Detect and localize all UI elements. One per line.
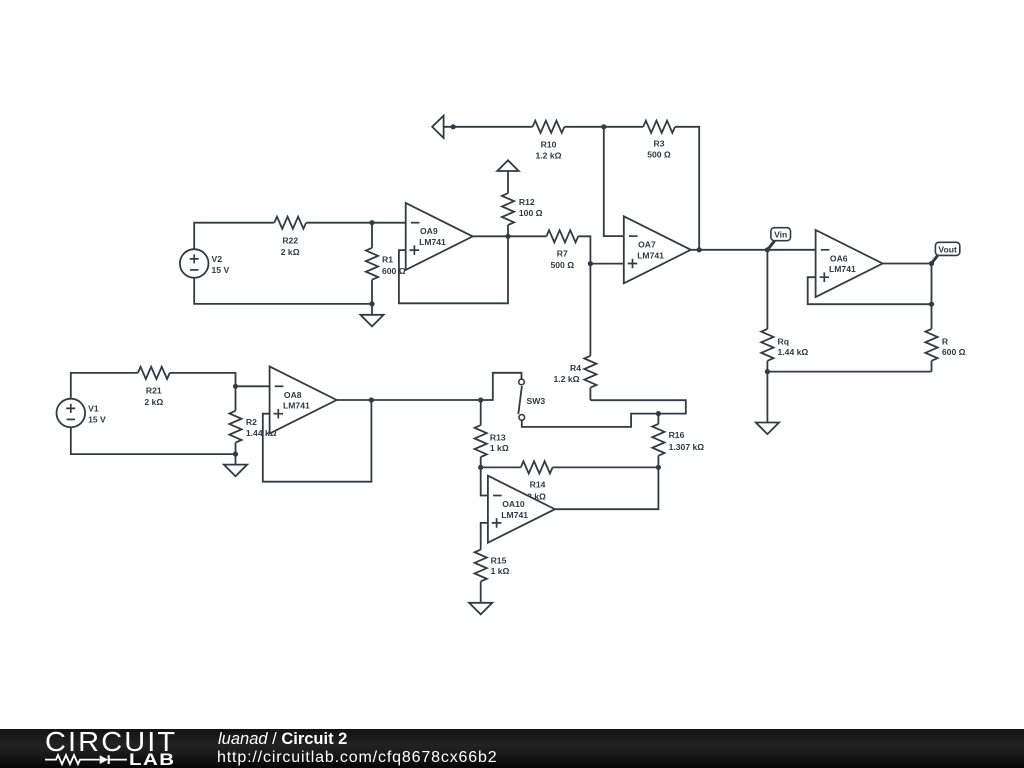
junction (601, 124, 606, 129)
resistor R13 (475, 400, 509, 467)
junction (505, 234, 510, 239)
svg-text:R13: R13 (490, 432, 506, 442)
svg-text:600 Ω: 600 Ω (382, 266, 406, 276)
svg-text:R10: R10 (541, 139, 557, 149)
wire (194, 278, 372, 304)
wire (675, 127, 699, 250)
svg-text:2 kΩ: 2 kΩ (144, 397, 163, 407)
wire (808, 277, 932, 304)
footer bar (0, 729, 1024, 768)
svg-text:1.2 kΩ: 1.2 kΩ (553, 374, 579, 384)
svg-text:R22: R22 (282, 235, 298, 245)
svg-text:Rq: Rq (778, 337, 789, 347)
resistor R22 (274, 217, 306, 257)
wire (766, 361, 768, 372)
resistor R3 (643, 121, 675, 160)
junction (451, 124, 456, 129)
junction (233, 452, 238, 457)
svg-text:R14: R14 (530, 480, 546, 490)
wire (170, 373, 270, 386)
voltage source V2 (180, 249, 230, 278)
op-amp OA8 (270, 367, 337, 434)
wire (71, 427, 236, 454)
svg-text:Vout: Vout (938, 244, 957, 254)
wire (507, 225, 509, 236)
ground (360, 304, 383, 327)
net flag Vin (769, 228, 791, 249)
wire (589, 264, 591, 356)
svg-text:R12: R12 (519, 197, 535, 207)
wire (481, 373, 522, 400)
resistor R7 (546, 230, 578, 270)
resistor R4 (553, 356, 596, 400)
resistor R1 (366, 223, 406, 304)
junction (369, 220, 374, 225)
wire (604, 127, 624, 236)
wire (337, 399, 481, 401)
wire (507, 171, 509, 193)
wire (766, 372, 768, 423)
wire (767, 371, 931, 373)
wire (473, 235, 547, 237)
svg-text:R: R (942, 337, 949, 347)
svg-text:15 V: 15 V (88, 415, 106, 425)
op-amp OA6 (816, 230, 883, 297)
svg-text:500 Ω: 500 Ω (550, 260, 574, 270)
junction (656, 465, 661, 470)
junction (929, 302, 934, 307)
svg-text:SW3: SW3 (527, 396, 546, 406)
wire (578, 236, 590, 263)
svg-text:1.307 kΩ: 1.307 kΩ (669, 442, 705, 452)
wire (564, 126, 643, 128)
op-amp OA10 (488, 476, 555, 543)
svg-text:R7: R7 (557, 249, 568, 259)
wire (931, 264, 933, 330)
junction (929, 261, 934, 266)
wire (553, 466, 659, 468)
svg-text:R4: R4 (570, 363, 581, 373)
net flag arrow B (497, 160, 518, 171)
voltage source V1 (57, 399, 107, 428)
junction (369, 397, 374, 402)
footer url (217, 749, 498, 766)
svg-text:2 kΩ: 2 kΩ (281, 247, 300, 257)
junction (765, 247, 770, 252)
resistor R14 (521, 461, 553, 501)
svg-text:V1: V1 (88, 403, 99, 413)
svg-text:1 kΩ: 1 kΩ (491, 566, 510, 576)
wire (691, 249, 816, 251)
svg-text:OA6: OA6 (830, 253, 848, 263)
wire (263, 400, 372, 482)
op-amp OA7 (624, 216, 691, 283)
logo LAB text (129, 753, 176, 767)
junction (369, 301, 374, 306)
svg-text:Vin: Vin (774, 230, 787, 240)
wire (481, 467, 488, 495)
junction (765, 369, 770, 374)
svg-text:R15: R15 (491, 555, 507, 565)
svg-text:15 V: 15 V (212, 265, 230, 275)
footer title (218, 731, 347, 748)
op-amp OA9 (406, 203, 473, 270)
junction (233, 384, 238, 389)
ground (756, 423, 779, 435)
resistor R12 (502, 193, 543, 225)
resistor R10 (533, 121, 565, 161)
logo doodle (0, 729, 200, 768)
svg-text:OA7: OA7 (638, 240, 656, 250)
svg-text:OA10: OA10 (502, 499, 525, 509)
svg-text:R3: R3 (654, 138, 665, 148)
svg-text:V2: V2 (212, 254, 223, 264)
svg-text:OA8: OA8 (284, 390, 302, 400)
svg-text:R21: R21 (146, 386, 162, 396)
svg-text:LM741: LM741 (829, 264, 856, 274)
net flag arrow A (432, 116, 443, 138)
svg-text:R1: R1 (382, 254, 393, 264)
wire (444, 126, 533, 128)
svg-text:1.2 kΩ: 1.2 kΩ (535, 150, 561, 160)
resistor R21 (138, 367, 170, 407)
resistor R2 (229, 386, 276, 454)
ground (469, 603, 492, 615)
resistor R (925, 329, 965, 361)
resistor R15 (475, 550, 510, 603)
CircuitLab logo CIRCUIT text (45, 729, 177, 755)
wire (590, 400, 685, 413)
junction (478, 465, 483, 470)
ground (224, 454, 247, 476)
switch SW3 (518, 379, 545, 420)
net flag Vout (933, 242, 960, 262)
wire (931, 361, 933, 372)
resistor Rq (761, 329, 808, 361)
wire (883, 263, 932, 265)
svg-text:OA9: OA9 (420, 226, 438, 236)
wire (766, 250, 768, 329)
wire (481, 466, 521, 468)
svg-text:R2: R2 (246, 417, 257, 427)
svg-text:1 kΩ: 1 kΩ (490, 443, 509, 453)
wire (71, 373, 138, 399)
svg-text:1.44 kΩ: 1.44 kΩ (778, 347, 809, 357)
svg-text:600 Ω: 600 Ω (942, 347, 966, 357)
wire (306, 222, 406, 224)
wire (555, 467, 659, 509)
wire (399, 236, 508, 303)
svg-text:LM741: LM741 (283, 401, 310, 411)
svg-text:100 Ω: 100 Ω (519, 208, 543, 218)
svg-text:LM741: LM741 (419, 237, 446, 247)
resistor R16 (652, 414, 704, 468)
svg-text:LM741: LM741 (637, 250, 664, 260)
svg-text:500 Ω: 500 Ω (647, 149, 671, 159)
junction (588, 261, 593, 266)
junction (656, 411, 661, 416)
svg-text:R16: R16 (669, 430, 685, 440)
wire (590, 263, 623, 265)
wire (522, 414, 659, 427)
junction (697, 247, 702, 252)
svg-text:LM741: LM741 (501, 510, 528, 520)
wire (481, 523, 488, 550)
junction (478, 397, 483, 402)
wire (194, 223, 274, 250)
